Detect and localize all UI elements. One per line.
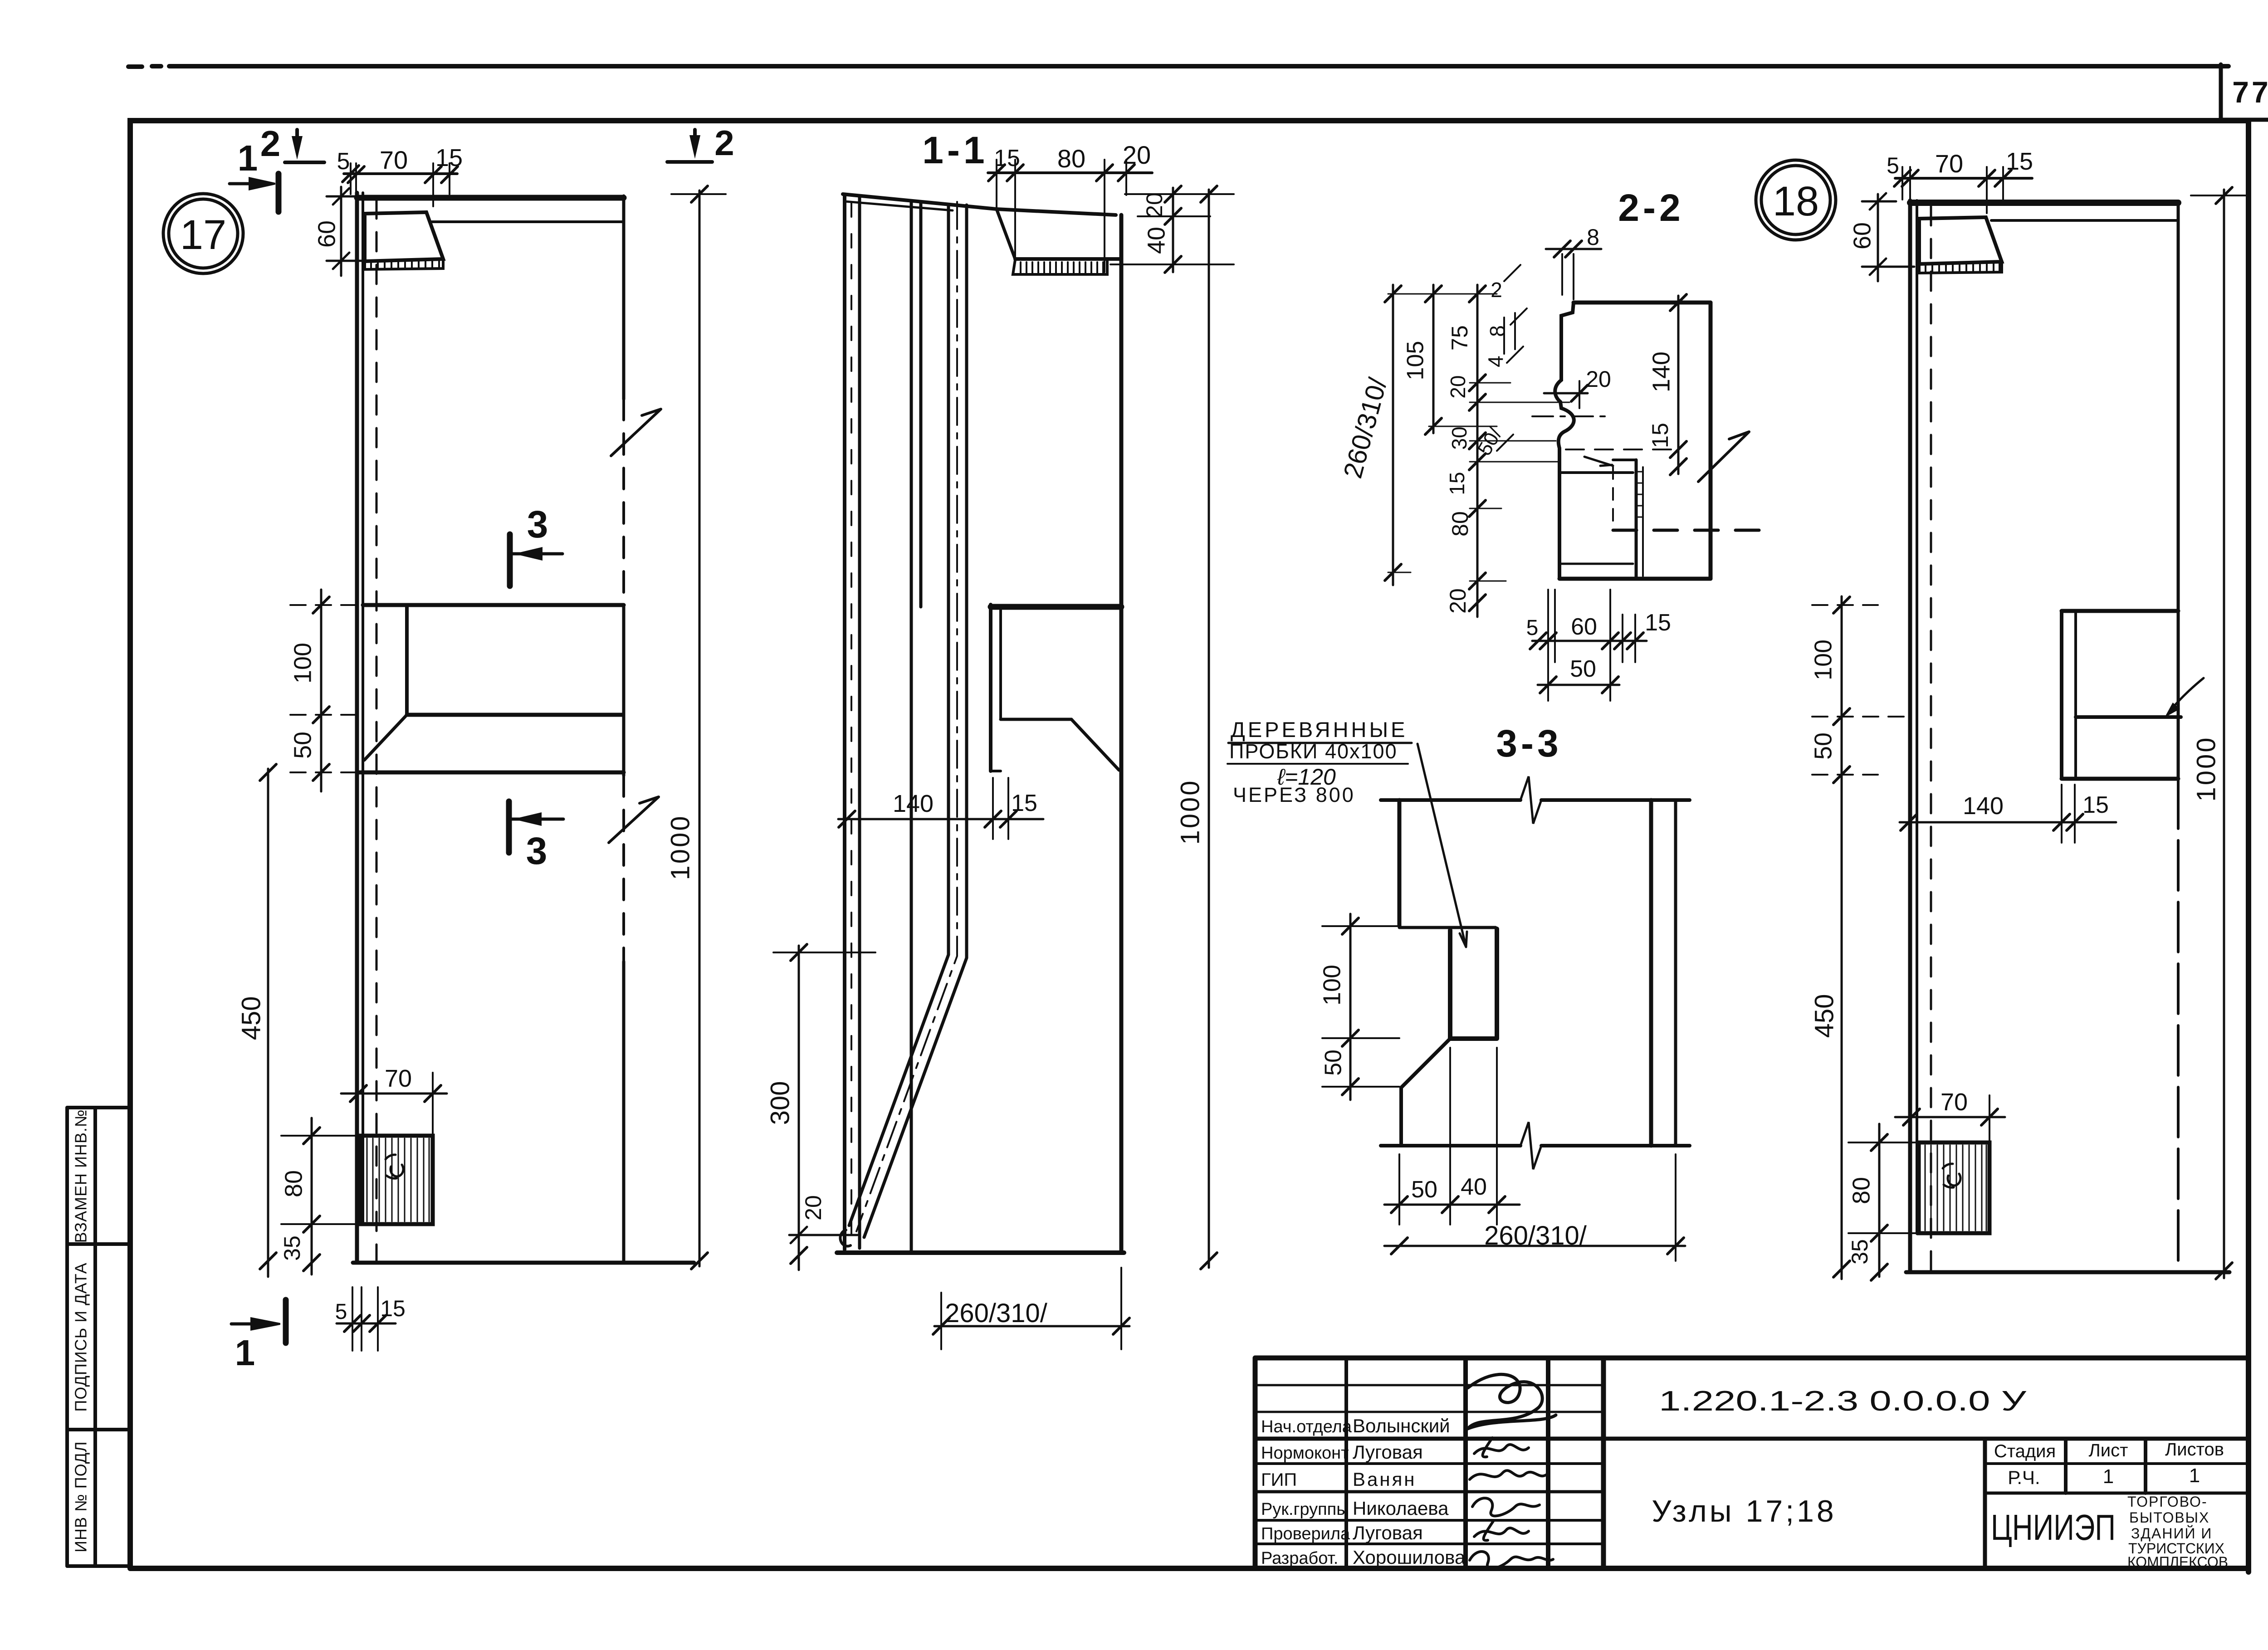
cut mark 1 top: bar and arrow	[276, 174, 282, 212]
svg-text:100: 100	[289, 643, 316, 683]
svg-text:50: 50	[1411, 1176, 1437, 1203]
svg-text:2: 2	[260, 123, 281, 164]
leader line to plug	[1417, 744, 1467, 947]
svg-text:Проверила: Проверила	[1261, 1524, 1350, 1543]
svg-text:Хорошилова: Хорошилова	[1353, 1547, 1466, 1568]
svg-text:70: 70	[385, 1065, 412, 1092]
svg-text:ТОРГОВО-: ТОРГОВО-	[2127, 1494, 2208, 1510]
signature lugovaya 1	[1474, 1438, 1529, 1457]
svg-text:Разработ.: Разработ.	[1261, 1549, 1338, 1568]
svg-text:20: 20	[801, 1195, 826, 1220]
side panel right edge of detail 18	[2177, 203, 2180, 611]
dim 140 15 of section 1-1	[838, 818, 1043, 820]
signature volynskiy flourish	[1468, 1374, 1556, 1429]
dim 8 top of section 2-2	[1562, 254, 1574, 299]
dim 60 for ledge 18	[1877, 194, 1879, 281]
svg-text:35: 35	[279, 1235, 305, 1261]
break leader mark upper 17	[611, 409, 661, 456]
svg-text:20: 20	[1123, 141, 1151, 169]
svg-text:3-3: 3-3	[1496, 722, 1562, 765]
svg-text:1.220.1-2.3 0.0.0.0 У: 1.220.1-2.3 0.0.0.0 У	[1659, 1386, 2027, 1417]
detail marker circle 18	[1756, 160, 1836, 240]
top ledge bracket of detail 18	[1919, 217, 2002, 264]
svg-text:4: 4	[1484, 356, 1507, 367]
dim chain 75 20 30 15 80 20 of section 2-2	[1476, 285, 1479, 617]
svg-text:2: 2	[1491, 278, 1502, 302]
svg-text:300: 300	[765, 1081, 795, 1125]
dim 105 of section 2-2	[1432, 285, 1435, 433]
svg-text:ИНВ № ПОДЛ: ИНВ № ПОДЛ	[72, 1441, 90, 1552]
svg-text:50: 50	[1570, 656, 1596, 682]
bottom line of section 1-1	[837, 1250, 1124, 1255]
svg-text:1000: 1000	[1175, 779, 1205, 845]
dim 20 left bottom of section 1-1	[789, 1227, 857, 1243]
svg-text:Лист: Лист	[2089, 1440, 2128, 1460]
break symbol top 3-3	[1520, 776, 1541, 824]
svg-text:60: 60	[313, 220, 340, 248]
svg-text:Николаева: Николаева	[1353, 1498, 1449, 1519]
svg-text:100: 100	[1809, 639, 1837, 680]
svg-text:БЫТОВЫХ: БЫТОВЫХ	[2129, 1509, 2209, 1526]
title block outer border	[1255, 1358, 2248, 1568]
dim 1000 right of detail 18	[2223, 190, 2225, 1278]
svg-text:Узлы 17;18: Узлы 17;18	[1652, 1494, 1836, 1528]
svg-text:20: 20	[1142, 192, 1167, 218]
signature vanyan	[1470, 1470, 1546, 1479]
foot curl of section 1-1	[840, 1230, 850, 1246]
svg-text:60: 60	[1848, 222, 1876, 249]
panel outer edge of section 1-1	[1119, 215, 1124, 1251]
right wall lines of section 3-3	[1649, 800, 1653, 1146]
sheet top edge line	[128, 66, 2229, 67]
right dim refs 20 40 of section 1-1	[1110, 194, 1234, 264]
svg-text:30: 30	[1447, 426, 1471, 449]
svg-text:1000: 1000	[2191, 736, 2221, 801]
svg-text:ГИП: ГИП	[1261, 1470, 1297, 1490]
svg-text:20: 20	[1445, 588, 1471, 614]
bracket support of section 1-1	[991, 604, 1121, 610]
top ledge bracket of detail 17	[365, 212, 443, 261]
svg-text:5: 5	[1526, 616, 1539, 640]
svg-text:Рук.группы: Рук.группы	[1261, 1500, 1349, 1519]
curved leader arrow at shelf 18	[2170, 678, 2204, 710]
svg-text:1-1: 1-1	[922, 129, 988, 171]
svg-text:2-2: 2-2	[1618, 186, 1684, 229]
left face of section 3-3	[1398, 800, 1402, 926]
sheet number box	[2221, 64, 2268, 1026]
dim 50 below section 2-2	[1538, 684, 1619, 686]
svg-text:50: 50	[1809, 732, 1837, 760]
floor line of detail 17	[353, 1261, 694, 1265]
cut mark 2 top: arrow and bar	[295, 130, 299, 141]
svg-text:Ванян: Ванян	[1353, 1469, 1417, 1490]
diagonal sloped board of section 1-1	[849, 205, 948, 1225]
dim 260/310/ bottom of section 1-1	[934, 1325, 1129, 1328]
svg-text:75: 75	[1447, 325, 1472, 351]
svg-text:15: 15	[1645, 610, 1671, 636]
svg-text:Нач.отдела: Нач.отдела	[1261, 1417, 1352, 1436]
side panel right edge of detail 17	[622, 196, 626, 399]
svg-text:40: 40	[1461, 1174, 1487, 1200]
svg-text:1: 1	[238, 138, 258, 178]
svg-text:15: 15	[994, 145, 1020, 171]
dim 1000 right of detail 17	[699, 190, 701, 1266]
svg-text:15: 15	[435, 144, 463, 171]
svg-text:Нормоконт: Нормоконт	[1261, 1444, 1349, 1463]
wall center dashed line	[376, 200, 378, 1265]
svg-text:Луговая: Луговая	[1353, 1522, 1423, 1543]
svg-text:60: 60	[1571, 614, 1597, 640]
bottom wall line of section 3-3	[1381, 1144, 1690, 1147]
middle shelf of detail 18	[2062, 609, 2178, 613]
dim 50 40 below section 3-3	[1384, 1204, 1520, 1206]
profile moulded left edge of section 2-2	[1555, 303, 1574, 579]
dim chain 100 50 left of shelf 17	[320, 590, 323, 791]
detail marker circle 17	[163, 194, 243, 273]
svg-text:20: 20	[1586, 366, 1611, 392]
dim 140 15 right of section 2-2	[1677, 296, 1680, 474]
svg-text:80: 80	[1848, 1177, 1875, 1204]
wall panel of detail 18	[1908, 200, 1912, 1271]
svg-text:450: 450	[1809, 994, 1839, 1038]
sloping top surface of section 1-1	[843, 194, 1116, 215]
svg-text:3: 3	[526, 830, 547, 872]
svg-text:Листов: Листов	[2165, 1440, 2224, 1460]
svg-text:140: 140	[893, 790, 934, 817]
svg-text:ЗДАНИЙ И: ЗДАНИЙ И	[2131, 1525, 2212, 1542]
floor line of detail 18	[1906, 1270, 2229, 1274]
dim 20 at wave of section 2-2	[1544, 392, 1588, 395]
inner box of section 2-2	[1635, 460, 1638, 579]
top shelf board of detail 18	[1910, 200, 2178, 206]
wave center line of section 2-2	[1532, 415, 1609, 417]
break leader mark of section 2-2	[1698, 432, 1749, 482]
svg-text:Волынский: Волынский	[1353, 1415, 1450, 1436]
svg-text:50: 50	[1320, 1050, 1347, 1076]
knot mark in wood block 17	[386, 1155, 403, 1178]
dim 5 70 15 top of detail 17	[344, 172, 457, 175]
svg-text:100: 100	[1318, 965, 1345, 1006]
corner arrow of section 2-2	[1584, 457, 1613, 466]
small tick cluster right of chain 2-2	[1497, 265, 1527, 451]
title block horizontal lines	[1255, 1384, 1603, 1386]
svg-text:ПРОБКИ 40х100: ПРОБКИ 40х100	[1229, 740, 1398, 763]
svg-text:ДЕРЕВЯННЫЕ: ДЕРЕВЯННЫЕ	[1231, 718, 1408, 742]
svg-text:ВЗАМЕН ИНВ.№: ВЗАМЕН ИНВ.№	[72, 1109, 90, 1243]
svg-text:8: 8	[1587, 225, 1599, 250]
svg-text:15: 15	[1445, 472, 1469, 495]
svg-text:140: 140	[1963, 792, 2004, 820]
svg-text:77: 77	[2232, 75, 2268, 109]
left stamp column boxes	[67, 1108, 130, 1566]
dim 260/310/ below section 3-3	[1384, 1245, 1685, 1247]
svg-text:1: 1	[2189, 1464, 2200, 1487]
svg-text:70: 70	[380, 146, 408, 174]
dim 15 80 20 top of section 1-1	[988, 171, 1152, 174]
svg-text:20: 20	[1446, 375, 1470, 398]
wall layer lines of section 1-1	[843, 195, 846, 1250]
shelf ledge lines inside section 2-2	[1566, 449, 1678, 450]
profile bottom edge of section 2-2	[1559, 577, 1711, 581]
svg-text:80: 80	[1447, 511, 1473, 537]
svg-text:260/310/: 260/310/	[1484, 1221, 1587, 1250]
break leader mark lower 17	[609, 797, 659, 843]
svg-text:ЦНИИЭП: ЦНИИЭП	[1991, 1507, 2116, 1547]
dim 140 15 of detail 18	[1900, 821, 2116, 824]
svg-text:17: 17	[180, 212, 226, 258]
profile top edge of section 2-2	[1574, 301, 1711, 305]
svg-text:35: 35	[1847, 1239, 1872, 1264]
svg-text:5: 5	[335, 1300, 347, 1324]
dim 300 left of section 1-1	[798, 946, 800, 1270]
wood block of detail 18	[1919, 1142, 1989, 1233]
lower left face of section 3-3	[1401, 1039, 1450, 1088]
dashed hidden lines of section 2-2	[1612, 467, 1614, 530]
toothed strip under ledge 18	[1919, 262, 2002, 273]
svg-text:ПОДПИСЬ И ДАТА: ПОДПИСЬ И ДАТА	[72, 1262, 90, 1411]
top shelf board of detail 17	[357, 195, 624, 201]
svg-text:1: 1	[235, 1333, 255, 1373]
toothed strip of section 1-1	[1013, 260, 1107, 274]
svg-text:3: 3	[527, 503, 548, 546]
dim 5 60 15 below section 2-2	[1532, 640, 1647, 642]
svg-text:15: 15	[1011, 790, 1037, 816]
svg-text:70: 70	[1941, 1089, 1968, 1116]
svg-text:1000: 1000	[665, 814, 695, 880]
profile right edge of section 2-2	[1709, 303, 1713, 579]
wall panel of detail 17	[355, 193, 359, 1263]
svg-text:50: 50	[289, 732, 316, 759]
signature nikolaeva	[1472, 1498, 1540, 1516]
svg-text:КОМПЛЕКСОВ: КОМПЛЕКСОВ	[2127, 1554, 2228, 1570]
dim 450 left of detail 17	[267, 769, 269, 1277]
svg-text:15: 15	[2006, 148, 2033, 175]
svg-text:2: 2	[714, 123, 734, 163]
dim 5 70 15 top of detail 18	[1895, 177, 2032, 180]
recess notch of section 1-1	[997, 209, 1015, 259]
svg-text:Р.Ч.: Р.Ч.	[2008, 1467, 2040, 1488]
signature khoroshilova	[1470, 1552, 1553, 1569]
dim 70 over wood block 17	[341, 1093, 447, 1095]
dim chain 100 50 of section 3-3	[1349, 914, 1352, 1100]
wood block of detail 17	[361, 1136, 433, 1224]
dim chain 80 35 left of block 17	[311, 1118, 313, 1274]
middle shelf of detail 17	[363, 603, 624, 607]
top wall line of section 3-3	[1381, 798, 1690, 802]
svg-text:Стадия: Стадия	[1994, 1441, 2056, 1461]
knot mark in wood block 18	[1943, 1164, 1960, 1187]
svg-text:8: 8	[1486, 325, 1509, 337]
dim 60 for ledge 17	[340, 187, 342, 276]
break symbol bottom 3-3	[1520, 1122, 1541, 1169]
svg-text:15: 15	[380, 1296, 406, 1321]
svg-text:80: 80	[1057, 144, 1085, 173]
svg-text:260/310/: 260/310/	[945, 1299, 1048, 1328]
svg-text:80: 80	[280, 1170, 307, 1197]
dim chain 100 50 left of shelf 18	[1841, 596, 1843, 791]
toothed strip under ledge 17	[365, 259, 443, 269]
dim chain 80 35 left of block 18	[1878, 1124, 1881, 1277]
dim 260/310/ left chain of section 2-2	[1392, 285, 1394, 585]
svg-text:15: 15	[2082, 792, 2109, 818]
svg-text:5: 5	[337, 148, 350, 175]
wooden plug of section 3-3	[1450, 929, 1497, 1039]
svg-text:105: 105	[1403, 341, 1429, 381]
svg-text:450: 450	[236, 996, 266, 1040]
dim 1000 right of section 1-1	[1208, 190, 1210, 1268]
title block vertical lines	[1344, 1358, 1348, 1568]
wall center dashed line 18	[1930, 206, 1932, 1270]
dim 70 over wood block 18	[1895, 1116, 2005, 1118]
svg-text:18: 18	[1773, 178, 1819, 225]
dim 5 15 bottom of detail 17	[337, 1323, 396, 1325]
svg-text:40: 40	[1143, 227, 1170, 254]
svg-text:ЧЕРЕЗ 800: ЧЕРЕЗ 800	[1233, 783, 1355, 806]
svg-text:140: 140	[1647, 351, 1675, 392]
signature lugovaya 2	[1474, 1521, 1529, 1540]
dim 450 left of detail 18	[1841, 791, 1843, 1279]
svg-text:15: 15	[1647, 423, 1673, 448]
svg-text:5: 5	[1887, 153, 1899, 178]
svg-text:Луговая: Луговая	[1353, 1441, 1423, 1463]
svg-text:70: 70	[1935, 149, 1963, 178]
svg-text:1: 1	[2103, 1465, 2114, 1488]
